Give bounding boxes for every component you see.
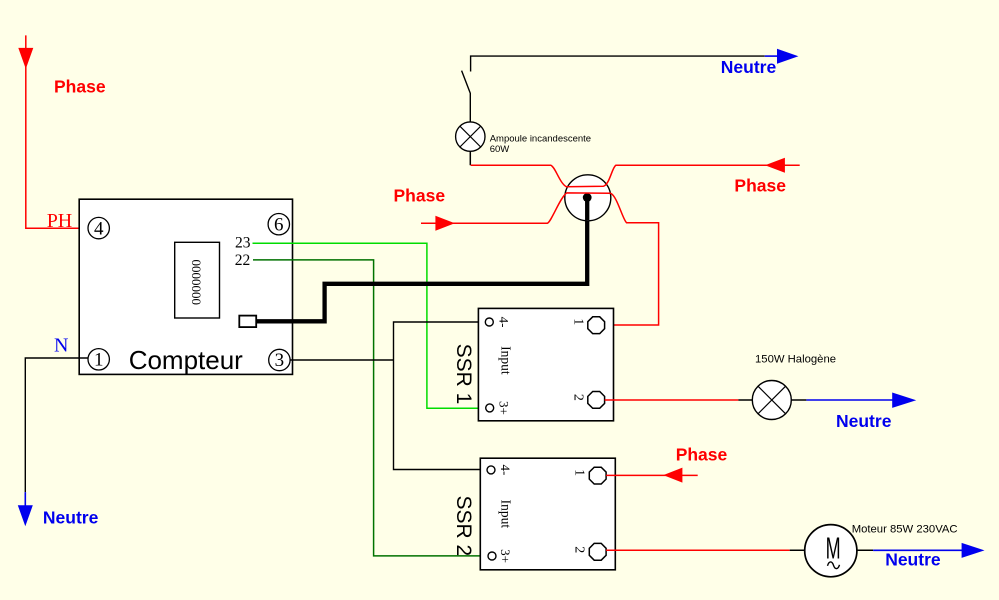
SSR1 pin 4-: [485, 318, 493, 326]
svg-text:SSR 2: SSR 2: [452, 495, 475, 556]
wire: compteur terminal 3 to SSR inputs black: [290, 322, 487, 470]
svg-text:3: 3: [275, 350, 285, 371]
SSR2 pin 1 octagon: [589, 467, 606, 484]
svg-text:3+: 3+: [498, 549, 513, 563]
arrow: phase feed pointing down: [18, 48, 33, 69]
arrow: phase mid-left pointing right: [435, 216, 454, 231]
terminal 1: [88, 349, 109, 370]
svg-text:1: 1: [572, 469, 587, 476]
terminal 3: [269, 349, 290, 370]
wire+arrow: neutre bottom-left blue: [24, 492, 26, 506]
wire: phase feed vertical top-left: [26, 35, 88, 228]
svg-text:22: 22: [235, 252, 251, 269]
SSR2 pin 3+: [488, 552, 496, 560]
wire: phase through toroid to lamp (red, upper pass): [471, 165, 800, 187]
svg-text:4: 4: [94, 218, 104, 239]
svg-text:2: 2: [571, 394, 586, 401]
svg-text:1: 1: [94, 350, 104, 371]
motor tilde: [828, 562, 840, 569]
svg-text:Compteur: Compteur: [129, 345, 243, 375]
svg-text:4-: 4-: [497, 317, 512, 328]
svg-text:23: 23: [235, 234, 251, 251]
SSR2 pin 4-: [487, 466, 495, 474]
wire: SSR2 pin2 to motor red: [606, 549, 790, 551]
svg-text:PH: PH: [47, 210, 73, 232]
svg-text:6: 6: [274, 214, 284, 235]
svg-text:Neutre: Neutre: [721, 57, 777, 77]
SSR1 pin 1 octagon: [588, 317, 605, 334]
wire: SSR1 pin2 to halogen red: [605, 399, 739, 401]
wire+arrow: neutre top-right blue: [765, 55, 778, 57]
lamp E1 ampoule 60W: [456, 122, 485, 151]
arrow: phase top-right pointing left: [765, 158, 785, 173]
SSR1 pin 2 octagon: [588, 392, 605, 409]
svg-text:Neutre: Neutre: [885, 550, 941, 570]
svg-text:2: 2: [572, 546, 587, 553]
wire: halogen stubs black: [738, 399, 806, 401]
svg-text:Input: Input: [499, 500, 514, 529]
svg-text:60W: 60W: [490, 144, 510, 155]
CT toroid: [565, 175, 611, 221]
connector: CT plug on compteur: [239, 316, 256, 328]
svg-text:Input: Input: [499, 346, 514, 375]
CT center dot: [583, 193, 592, 202]
svg-text:Phase: Phase: [54, 77, 106, 97]
wire: thick stub through toroid: [585, 198, 589, 221]
SSR2 pin 2 octagon: [589, 543, 606, 560]
svg-text:3+: 3+: [497, 401, 512, 415]
svg-text:Phase: Phase: [394, 186, 446, 206]
svg-text:Neutre: Neutre: [43, 507, 99, 527]
wire+arrow: neutre motor blue: [873, 549, 962, 551]
register display: [175, 242, 220, 318]
svg-text:1: 1: [571, 318, 586, 325]
wire+arrow: phase SSR2 pin1 red: [606, 474, 698, 476]
SSR1 box: [478, 308, 613, 420]
wire: neutre top horizontal black: [471, 56, 765, 71]
wire: pulse output 23 to SSR1 3+ (green): [253, 243, 486, 408]
wire: pulse output 22 to SSR2 3+ (dark green): [253, 260, 489, 556]
terminal 6: [268, 214, 289, 235]
svg-text:0000000: 0000000: [189, 259, 204, 305]
svg-text:M: M: [826, 531, 841, 566]
svg-text:Phase: Phase: [676, 445, 728, 465]
wire: phase mid-left through toroid to SSR1 pin1 (red, lower pass): [421, 193, 659, 325]
svg-text:Moteur 85W 230VAC: Moteur 85W 230VAC: [852, 524, 958, 536]
svg-text:Neutre: Neutre: [836, 411, 892, 431]
svg-text:Phase: Phase: [734, 175, 786, 195]
SSR2 box: [480, 458, 615, 570]
SSR1 pin 3+: [486, 404, 494, 412]
svg-text:N: N: [54, 334, 68, 356]
terminal 4: [88, 217, 109, 238]
switch S1 blade: [462, 71, 471, 122]
svg-text:SSR 1: SSR 1: [452, 344, 475, 405]
wire+arrow: neutre halogen blue: [806, 399, 893, 401]
svg-text:4-: 4-: [498, 464, 513, 475]
wire: lamp bottom stub black: [469, 151, 471, 165]
wire: motor stubs black: [790, 549, 873, 551]
wire: compteur terminal 1 to neutre black: [25, 358, 88, 492]
lamp halogene 150W: [752, 381, 791, 420]
wire: CT secondary thick black: [256, 198, 587, 322]
motor M1: [805, 525, 857, 577]
svg-text:150W Halogène: 150W Halogène: [755, 354, 836, 366]
compteur box: [79, 199, 292, 374]
